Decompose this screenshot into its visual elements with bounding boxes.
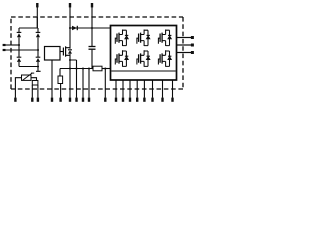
diode D1 — [17, 28, 22, 57]
diode D3 — [17, 57, 22, 66]
pin 9 — [88, 69, 90, 102]
pin 5 (R1) — [59, 98, 61, 102]
pin 14 — [136, 80, 138, 102]
transistor Q7 igbt — [158, 50, 171, 67]
transistor Q3 igbt — [137, 30, 150, 47]
wire inverter N rail — [111, 70, 175, 72]
pin P (top, rectifier out) — [36, 3, 38, 28]
transistor Q1 mosfet — [63, 28, 72, 60]
resistor R1 — [58, 69, 63, 98]
output W — [177, 51, 194, 54]
op block gate driver U1 — [45, 47, 61, 61]
wire stub N-return — [36, 67, 41, 72]
diode D4 — [36, 57, 41, 66]
pin 17 — [161, 80, 163, 102]
node rectifier minus — [37, 65, 39, 67]
wire TH1 left lead — [15, 78, 21, 98]
node n4 — [88, 67, 90, 69]
pin 11 — [115, 80, 117, 102]
pin 8 — [82, 69, 84, 102]
pin 3 — [37, 85, 39, 102]
node n1 — [69, 67, 71, 69]
AC input 1 — [3, 44, 19, 46]
pin 10 — [104, 69, 106, 102]
wire source loop — [70, 60, 77, 69]
AC input 2 — [3, 49, 38, 51]
thermistor TH1 — [22, 73, 35, 80]
output V — [177, 44, 194, 47]
pin DC+ — [91, 3, 93, 28]
node AC2-leg2 — [37, 49, 39, 51]
transistor Q4 igbt — [158, 30, 171, 47]
node AC1-leg1 — [18, 44, 20, 46]
node source — [69, 59, 71, 61]
output U — [177, 36, 194, 39]
wire P bus — [70, 27, 111, 29]
pin 13 — [129, 80, 131, 102]
transistor Q2 igbt — [115, 30, 128, 47]
node shunt-out — [104, 67, 106, 69]
pin 15 — [143, 80, 145, 102]
capacitor C1 — [89, 28, 96, 69]
wire TH1 right lead — [31, 78, 37, 81]
transistor Q6 igbt — [137, 50, 150, 67]
wire N bus — [60, 68, 93, 70]
wire rectifier bottom bus — [19, 66, 38, 68]
pin 4 (driver) — [51, 98, 53, 102]
node DC+ junction — [91, 27, 93, 29]
wire rectifier top bus — [19, 17, 38, 28]
pin 7 — [75, 69, 77, 102]
pin 16 — [151, 80, 153, 102]
diode D5 boost — [72, 26, 77, 30]
node n2 — [75, 67, 77, 69]
node drain-top junction — [69, 27, 71, 29]
pin 12 — [122, 80, 124, 102]
IC inverter block — [111, 26, 177, 81]
resistor R2 shunt — [93, 66, 111, 71]
wire driver return — [51, 60, 53, 98]
pin 2 — [31, 85, 33, 102]
box sense block — [32, 81, 38, 86]
pin 18 — [171, 80, 173, 102]
wire gate — [60, 51, 63, 53]
module dashed outline — [11, 17, 183, 89]
transistor Q5 igbt — [115, 50, 128, 67]
pin 6 — [69, 69, 71, 102]
node n3 — [82, 67, 84, 69]
pin 1 (thermistor) — [14, 98, 16, 102]
diode D2 — [36, 28, 41, 57]
pin drain-top — [69, 3, 71, 28]
